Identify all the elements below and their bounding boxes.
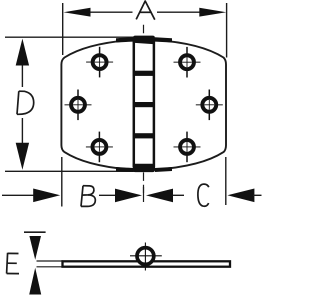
- dimension B extension tick: [61, 157, 63, 207]
- screw hole left bottom: [86, 132, 113, 163]
- hinge centerline: [143, 25, 145, 193]
- dimension C outside arrowhead: [227, 189, 254, 203]
- dimension D down arrowhead: [16, 143, 29, 170]
- dimension A line left segment: [88, 11, 133, 13]
- plate top-right edge wedge: [155, 37, 172, 42]
- screw hole right top: [174, 47, 201, 78]
- dimension A left arrowhead: [64, 8, 91, 17]
- dimension D up arrowhead: [16, 39, 29, 66]
- dimension B inner arrowhead: [115, 189, 142, 203]
- screw hole right bottom: [174, 132, 201, 163]
- barrel knuckle band 2: [133, 102, 155, 107]
- dimension C inner arrowhead: [146, 189, 173, 203]
- hinge outline: [61, 40, 226, 170]
- side view E up arrowhead: [29, 268, 41, 295]
- label E: [7, 253, 19, 274]
- dimension A extension line right: [226, 3, 228, 58]
- dimension B inner stub: [99, 194, 117, 196]
- barrel knuckle band 1: [133, 71, 155, 76]
- side view barrel circle: [137, 248, 154, 265]
- label D: [17, 91, 34, 114]
- barrel knuckle band 3: [133, 133, 155, 138]
- side view crosshair vertical: [144, 243, 146, 271]
- barrel bottom cap: [133, 164, 155, 172]
- dimension B outside arrowhead: [33, 189, 60, 203]
- dimension D line lower segment: [21, 118, 23, 146]
- plate top-left edge wedge: [116, 37, 133, 42]
- barrel left edge line: [133, 40, 136, 168]
- side view plate: [63, 261, 231, 266]
- dimension A right arrowhead: [199, 8, 226, 17]
- screw hole right middle: [196, 90, 223, 121]
- dimension B outside line: [2, 194, 35, 196]
- screw hole left top: [86, 47, 113, 78]
- label A: [136, 1, 155, 20]
- dimension C outside line: [253, 194, 262, 196]
- label B: [81, 186, 95, 207]
- screw hole left middle: [65, 90, 92, 121]
- side view crosshair horizontal: [130, 255, 162, 257]
- label C: [198, 184, 209, 206]
- dimension C extension tick: [225, 157, 227, 205]
- side view thin extension bottom: [37, 266, 64, 268]
- plate bottom-left edge wedge: [116, 167, 133, 172]
- dimension D line upper segment: [21, 62, 23, 87]
- dimension A extension line left: [62, 3, 64, 55]
- dimension C inner stub: [173, 194, 185, 196]
- side view E down arrowhead: [29, 236, 41, 260]
- dimension D top extension line: [5, 36, 135, 38]
- plate bottom-right edge wedge: [155, 167, 172, 172]
- centerline dash through B/C row: [143, 187, 145, 202]
- dimension A line right segment: [157, 11, 202, 13]
- dimension D bottom extension line: [5, 170, 135, 172]
- side view E top bar: [24, 231, 46, 233]
- barrel right edge line: [153, 40, 156, 168]
- barrel top cap: [133, 36, 155, 45]
- side view thin extension top: [37, 260, 64, 262]
